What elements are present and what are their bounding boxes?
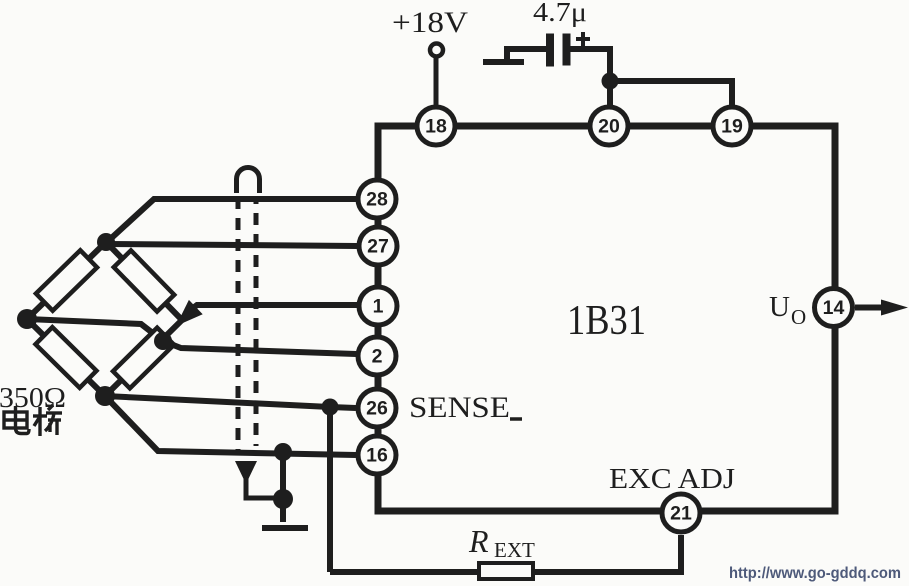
pin 21	[662, 494, 700, 532]
bridge diamond	[27, 242, 182, 396]
bridge resistor bottom-right	[113, 328, 174, 389]
svg-text:+18V: +18V	[392, 6, 468, 39]
svg-text:SENSE: SENSE	[409, 391, 510, 424]
shield bottom arrow	[235, 461, 257, 484]
pin 16	[358, 436, 396, 474]
svg-text:R: R	[468, 523, 489, 559]
wire bridge bottom to pin 26	[105, 396, 356, 408]
node bridge lower-right crossing	[154, 332, 172, 350]
IC U1 1B31 outline box	[378, 126, 835, 511]
pin 27	[359, 227, 397, 265]
pin 26	[358, 389, 396, 427]
shield left dashed line	[236, 197, 241, 452]
node bridge left	[17, 309, 37, 329]
wire ground tap	[280, 452, 286, 522]
wire pin 26 node down to REXT run	[327, 407, 333, 572]
wire capacitor right to pin 20	[570, 49, 610, 107]
label Uo	[769, 291, 806, 329]
resistor REXT	[468, 523, 535, 579]
wire bridge bottom to pin 16	[105, 396, 356, 455]
svg-text:19: 19	[721, 116, 743, 138]
power terminal +18V	[392, 6, 468, 57]
svg-text:1: 1	[373, 296, 384, 318]
node bridge top	[97, 233, 115, 251]
wire bridge left to pin 2	[27, 319, 356, 354]
label SENSE	[409, 391, 522, 424]
wire bottom run to REXT	[330, 569, 479, 575]
ground	[262, 525, 308, 531]
pin 2	[358, 337, 396, 375]
svg-text:O: O	[791, 305, 806, 329]
wire junction to pin 19	[610, 81, 732, 107]
wire +18V terminal to pin 18	[434, 57, 439, 107]
svg-text:1B31: 1B31	[567, 298, 646, 344]
wire shield to ground line	[246, 478, 283, 498]
watermark url	[729, 565, 901, 582]
output arrow Uo	[855, 300, 908, 316]
pin 14	[815, 289, 853, 327]
svg-text:http://www.go-gddq.com: http://www.go-gddq.com	[729, 565, 901, 582]
pin 20	[590, 107, 628, 145]
label 电桥 (drawn strokes)	[4, 405, 62, 436]
svg-text:14: 14	[823, 297, 845, 319]
shield top arch	[237, 168, 260, 194]
svg-text:26: 26	[366, 398, 388, 420]
svg-text:16: 16	[366, 445, 388, 467]
node shield ground junction	[273, 489, 293, 509]
node pin 26 wire junction	[322, 399, 339, 416]
node bridge bottom	[95, 386, 115, 406]
shield right dashed line	[254, 197, 259, 446]
pin 1	[359, 287, 397, 325]
bridge resistor top-right	[114, 250, 174, 311]
svg-text:20: 20	[598, 116, 620, 138]
svg-text:EXT: EXT	[494, 538, 535, 562]
bridge resistor top-left	[36, 250, 97, 310]
wire pin 1 to bridge right	[176, 300, 357, 326]
svg-text:18: 18	[425, 116, 447, 138]
pin 18	[417, 107, 455, 145]
wire REXT to pin 21	[533, 535, 681, 572]
svg-text:U: U	[769, 291, 790, 323]
svg-text:28: 28	[366, 189, 388, 211]
node pin 16 wire ground junction	[274, 443, 292, 461]
pin 19	[713, 107, 751, 145]
wire bridge top to pin 27	[106, 244, 357, 246]
bridge resistor bottom-left	[36, 327, 97, 388]
label 350Ω	[0, 382, 66, 414]
svg-text:350Ω: 350Ω	[0, 382, 66, 414]
node capacitor junction	[602, 73, 619, 90]
svg-text:27: 27	[367, 236, 389, 258]
label 1B31	[567, 298, 646, 344]
svg-text:21: 21	[670, 503, 692, 525]
svg-text:2: 2	[372, 346, 383, 368]
wire bridge top to pin 28	[106, 199, 356, 243]
label EXC ADJ	[609, 463, 735, 495]
capacitor C1 4.7μ	[533, 0, 590, 67]
svg-text:EXC ADJ: EXC ADJ	[609, 463, 735, 495]
pin 28	[358, 180, 396, 218]
wire capacitor left stub	[483, 49, 546, 62]
svg-text:4.7μ: 4.7μ	[533, 0, 587, 27]
